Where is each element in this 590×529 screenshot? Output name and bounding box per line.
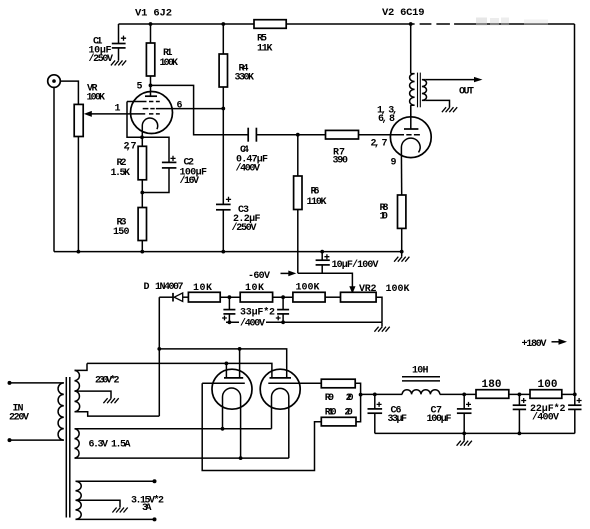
ground: 3.15V center tap xyxy=(112,508,127,513)
wire: 230V top lead to plate line A xyxy=(75,363,88,370)
svg-text:100K: 100K xyxy=(160,58,179,69)
node: C7 top xyxy=(462,393,466,397)
svg-text:33μF: 33μF xyxy=(388,414,408,425)
wire: 6.3V top heater line xyxy=(75,428,272,430)
svg-text:20: 20 xyxy=(344,408,353,419)
node: V1 cathode pins 2,7 xyxy=(140,135,144,139)
capacitor 10uF/100V bias filter xyxy=(316,252,330,274)
resistor 180 xyxy=(476,390,509,399)
svg-text:+180V: +180V xyxy=(522,339,547,350)
node: 3.15V top terminal xyxy=(153,479,157,483)
tube V1 6J2 envelope xyxy=(131,92,173,134)
resistor R7 390 xyxy=(298,130,404,139)
capacitor C7 100uF xyxy=(457,394,472,433)
node: pin6/R4/C3 junction xyxy=(221,107,225,111)
capacitor C1 10uF/250V xyxy=(112,24,126,60)
wire: 6.3V bottom heater line xyxy=(75,457,289,459)
capacitor 22uF*2 (first) xyxy=(513,394,527,433)
wire: OUT lead with arrow xyxy=(426,77,483,82)
wire: filter ground rail xyxy=(375,432,575,434)
wire: secondary bottom to ground xyxy=(426,100,450,107)
svg-text:100K: 100K xyxy=(386,284,410,295)
wire: VA cathode route to R10 xyxy=(202,383,321,470)
svg-text:6, 8: 6, 8 xyxy=(378,114,395,125)
capacitor C2 100uF/16V xyxy=(142,137,176,192)
node: R3 bottom on rail xyxy=(140,250,144,254)
svg-text:V2 6C19: V2 6C19 xyxy=(382,7,425,19)
V1 grid row 2 (pin 6 screen grid) xyxy=(143,108,224,110)
resistor 10K (second) xyxy=(240,292,272,302)
wire: 230V center tap to ground xyxy=(75,391,112,398)
svg-text:3A: 3A xyxy=(142,503,152,514)
svg-text:100: 100 xyxy=(538,379,558,391)
rectifier tube VB envelope xyxy=(260,369,300,409)
wire xyxy=(325,296,340,298)
node: 3.15V bottom terminal xyxy=(153,517,157,521)
wire: g3 box to cathode xyxy=(127,102,142,138)
node: bias node 1 xyxy=(228,295,232,299)
resistor R4 330K xyxy=(219,24,227,109)
node: VA right plate leg xyxy=(238,347,242,351)
svg-text:9: 9 xyxy=(391,158,397,169)
label +180V with arrow xyxy=(522,339,568,350)
node: cap1 bottom xyxy=(228,320,232,324)
output transformer T2 primary xyxy=(410,24,415,117)
ground: filter rail xyxy=(463,433,465,440)
label -60V with arrow xyxy=(248,271,296,283)
svg-text:11K: 11K xyxy=(257,44,273,55)
wire: jack down to ground rail xyxy=(53,87,55,251)
VB plate bar xyxy=(270,377,292,379)
node: VR bottom on rail xyxy=(77,250,81,254)
svg-text:330K: 330K xyxy=(235,73,255,84)
node: C7 bottom xyxy=(462,432,466,436)
T1 core xyxy=(66,377,70,518)
svg-text:-60V: -60V xyxy=(248,271,270,282)
VA heater xyxy=(223,388,241,458)
node: VA right heater leg xyxy=(239,456,243,460)
svg-text:/400V: /400V xyxy=(236,162,261,174)
wire: filter line xyxy=(360,393,402,395)
svg-text:/400V: /400V xyxy=(240,317,265,329)
choke 10H xyxy=(402,377,440,395)
svg-text:6: 6 xyxy=(177,101,183,112)
svg-text:VR2: VR2 xyxy=(359,284,377,295)
resistor 100K bias xyxy=(293,292,325,302)
resistor R8 10 xyxy=(398,152,406,252)
capacitor 33uF*2 (first) xyxy=(222,297,235,322)
resistor 100 xyxy=(530,390,562,399)
capacitor 33uF*2 (second) xyxy=(276,297,289,322)
capacitor C6 33uF xyxy=(368,394,383,433)
VA cathode xyxy=(202,382,245,384)
potentiometer VR 100K xyxy=(74,104,83,251)
svg-text:/250V: /250V xyxy=(232,222,257,234)
node: C6 top xyxy=(373,393,377,397)
svg-text:110K: 110K xyxy=(307,197,327,208)
ground: OUT return xyxy=(442,107,457,112)
svg-text:6.3V 1.5A: 6.3V 1.5A xyxy=(89,440,131,451)
output transformer secondary xyxy=(422,80,427,101)
V1 grid row 3 dashes xyxy=(149,113,160,115)
wire: jack to VR top xyxy=(60,81,78,104)
svg-text:100K: 100K xyxy=(296,283,320,294)
svg-text:5: 5 xyxy=(137,82,143,93)
power transformer T1 primary terminals xyxy=(8,381,12,385)
svg-text:D: D xyxy=(144,282,150,293)
wire: -60V line R6 to VR2 wiper xyxy=(298,273,353,288)
diode D 1N4007 xyxy=(159,293,188,302)
svg-text:/400V: /400V xyxy=(532,411,559,423)
svg-text:33μF*2: 33μF*2 xyxy=(240,307,275,319)
node: VA left heater leg xyxy=(221,427,225,431)
T1 primary winding xyxy=(58,383,64,440)
V1 cathode xyxy=(142,118,157,137)
svg-text:V1 6J2: V1 6J2 xyxy=(135,7,172,19)
svg-text:180: 180 xyxy=(482,379,502,391)
VR wiper arrow to V1 grid pin 1 xyxy=(84,111,145,117)
svg-text:10: 10 xyxy=(380,212,389,223)
tube V2 6C19 envelope xyxy=(390,117,431,158)
svg-text:100μF: 100μF xyxy=(427,414,452,425)
svg-text:/250V: /250V xyxy=(89,53,114,65)
svg-text:100K: 100K xyxy=(87,92,106,103)
wire xyxy=(562,393,575,395)
VR2 wiper arrow xyxy=(349,286,355,294)
wire: V1 plate to C4 xyxy=(151,85,249,134)
wire: rectifier plate line A (230V top) xyxy=(87,363,272,378)
node: 22uF cap1 top xyxy=(518,393,522,397)
resistor R6 110K xyxy=(294,135,302,274)
svg-text:150: 150 xyxy=(113,227,130,238)
ground: 230V center tap xyxy=(103,398,118,403)
resistor R3 150 xyxy=(138,208,146,252)
svg-text:OUT: OUT xyxy=(459,87,474,98)
node: cap2 bottom xyxy=(281,320,285,324)
node: R4 top junction xyxy=(221,22,225,26)
svg-text:20: 20 xyxy=(346,393,354,404)
V1 grid row 1 xyxy=(127,101,160,103)
node: V1 plate pin 5 xyxy=(149,84,153,88)
svg-text:R10: R10 xyxy=(325,408,337,419)
wire: VA left plate leg xyxy=(225,363,227,378)
node: 10uF top on rail xyxy=(320,250,324,254)
svg-text:1.5K: 1.5K xyxy=(111,168,131,179)
wire: VA right plate leg xyxy=(239,349,241,378)
svg-text:10K: 10K xyxy=(245,283,264,294)
resistor R9 20 xyxy=(321,379,360,394)
node: R9/R10 junction xyxy=(359,393,363,397)
capacitor C3 2.2uF/250V xyxy=(216,109,231,252)
wire: primary leads xyxy=(10,382,64,384)
ground: bias rail xyxy=(381,322,383,326)
svg-text:10H: 10H xyxy=(412,365,429,376)
node: R2 bottom / C2 return xyxy=(140,191,144,195)
T1 secondary 6.3V winding xyxy=(75,429,80,458)
node: 22uF cap1 bottom xyxy=(518,432,522,436)
ground: C1 xyxy=(111,60,126,65)
wire: VR2 right to bias ground xyxy=(376,297,382,322)
resistor R2 1.5K xyxy=(138,137,146,207)
T1 secondary 3.15V*2 winding xyxy=(76,481,82,519)
V2 plate xyxy=(404,105,418,129)
svg-text:220V: 220V xyxy=(9,412,29,423)
wire xyxy=(509,393,530,395)
V2 cathode xyxy=(401,138,420,152)
label 33uF*2 /400V xyxy=(239,307,275,330)
VB heater xyxy=(272,388,289,458)
input jack xyxy=(48,75,61,88)
node: +180V B+ node xyxy=(573,393,577,397)
watermark remnants xyxy=(415,18,548,26)
capacitor C4 0.47uF/400V xyxy=(248,128,298,142)
output transformer core xyxy=(418,73,421,108)
VB cathode to R9 xyxy=(268,382,321,384)
wire: 230V bottom lead to bias vertical xyxy=(75,412,160,416)
wire: bias feed vertical from 230V winding xyxy=(158,297,160,416)
capacitor 22uF*2 (second) xyxy=(568,394,582,433)
resistor R1 100K xyxy=(146,24,154,85)
wire: B+ right-edge drop to +180V node xyxy=(574,24,576,394)
node: R1 top junction xyxy=(149,22,153,26)
svg-text:1: 1 xyxy=(115,104,121,115)
svg-text:R6: R6 xyxy=(311,187,320,198)
rectifier tube VA envelope xyxy=(212,369,252,409)
V1 plate xyxy=(145,85,157,96)
wire xyxy=(220,296,240,298)
wire: B+ top rail xyxy=(119,23,575,25)
wire: bias ground rail xyxy=(226,321,382,323)
node: V2 plate junction xyxy=(409,22,413,26)
wire: 3.15V bottom lead xyxy=(76,518,155,520)
node: C3 bottom on rail xyxy=(221,250,225,254)
V2 grid dashes xyxy=(406,134,420,136)
svg-text:1N4007: 1N4007 xyxy=(155,282,184,293)
svg-text:/16V: /16V xyxy=(180,175,200,187)
resistor 10K (first) xyxy=(188,292,220,302)
node: rectifier plate line B tap xyxy=(157,347,161,351)
svg-text:2, 7: 2, 7 xyxy=(371,138,388,149)
wire xyxy=(273,296,293,298)
node: R8 bottom on rail xyxy=(400,250,404,254)
resistor R5 11K xyxy=(254,20,286,29)
potentiometer VR2 100K xyxy=(341,292,377,302)
svg-text:390: 390 xyxy=(333,156,349,167)
resistor R10 20 xyxy=(321,394,360,426)
ground: R8 / rail end xyxy=(401,252,403,257)
node: VA left plate leg xyxy=(225,362,229,366)
wire: 3.15V top lead xyxy=(76,480,155,482)
svg-text:2, 7: 2, 7 xyxy=(124,142,137,153)
node: bias node 2 xyxy=(281,295,285,299)
svg-text:R9: R9 xyxy=(325,393,335,404)
svg-text:10K: 10K xyxy=(193,283,212,294)
wire: rectifier plate line B (230V bottom) xyxy=(159,349,286,378)
node: C4/R6/R7 junction xyxy=(296,133,300,137)
T1 secondary 230V*2 winding xyxy=(75,370,80,411)
wire xyxy=(440,393,476,395)
wire: 3.15V center tap xyxy=(76,500,121,507)
svg-text:230V*2: 230V*2 xyxy=(95,375,120,387)
wire: signal ground rail xyxy=(54,251,402,253)
VA plate bar xyxy=(224,377,243,379)
svg-text:10μF/100V: 10μF/100V xyxy=(332,259,379,271)
